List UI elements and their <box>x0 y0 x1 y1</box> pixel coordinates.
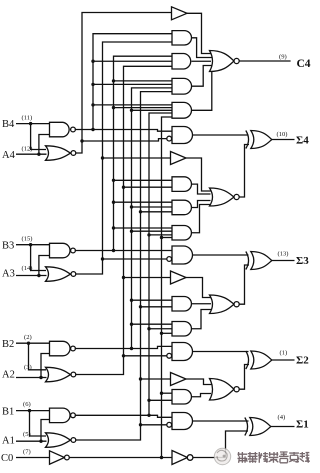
wire C1 to XOR2 <box>239 365 249 390</box>
wire halfsum2 to XOR2 <box>193 351 249 353</box>
wire buffer3 to NORc3 <box>186 158 211 191</box>
svg-text:(1): (1) <box>280 350 288 357</box>
svg-text:(13): (13) <box>278 250 289 257</box>
svg-text:A1: A1 <box>2 436 15 447</box>
nor gate 3-input producing C2 <box>210 295 235 314</box>
svg-text:Σ3: Σ3 <box>296 255 309 267</box>
svg-text:(2): (2) <box>24 334 32 341</box>
wire B4 input <box>16 123 50 125</box>
wire A1 input <box>16 440 47 442</box>
wire and2 to NOR5 <box>192 38 213 58</box>
svg-text:B4: B4 <box>2 119 15 130</box>
wire and3 to NOR5 <box>192 60 212 62</box>
nand gate bit2 (A2 B2) <box>50 341 71 356</box>
svg-text:(11): (11) <box>22 115 33 122</box>
wire to NORc3 <box>192 184 211 194</box>
wire to NORc1 <box>192 394 212 397</box>
buffer gate (pN3) section4 <box>171 152 187 165</box>
wire C4 output <box>239 60 290 62</box>
wire net gN2 (NAND2 output) bus <box>75 346 172 348</box>
wire C0 to XOR1 <box>193 431 248 458</box>
wire to NORc2 <box>192 310 212 329</box>
wire sum3 output <box>272 260 295 262</box>
nor gate 4-input producing C3 <box>210 188 235 206</box>
wire net pN3 (NOR3 output) bus <box>75 42 172 274</box>
and gate 5-input (C4 term) <box>172 102 191 118</box>
wire halfsum4 to XOR4 <box>193 134 249 136</box>
svg-text:(6): (6) <box>23 401 31 408</box>
wire A3 input <box>16 275 47 277</box>
nand gate bit3 (A3 B3) <box>50 243 71 257</box>
wire buffer1 to NORc1 <box>186 379 212 385</box>
wire net gN4 (NAND4 output) bus <box>75 130 172 132</box>
wire and4 to NOR5 <box>192 66 213 87</box>
svg-text:A3: A3 <box>2 269 15 280</box>
xor gate sum1 <box>245 418 248 436</box>
wire C2 to XOR3 <box>239 265 249 304</box>
and gate 3-input (C3 term) <box>172 200 191 215</box>
nor gate 5-input producing C4 <box>210 51 235 72</box>
svg-text:(4): (4) <box>278 414 286 421</box>
wire net pN4 (NOR4 output) bus <box>75 13 171 154</box>
and gate halfsum4 (bubble input pN4) <box>172 127 193 144</box>
and gate 2-input (C2 term) <box>172 297 191 312</box>
svg-text:A4: A4 <box>2 150 16 161</box>
wire sum2 output <box>272 359 295 361</box>
wire A2 input <box>16 377 47 379</box>
buffer gate (pN4) top <box>172 7 188 20</box>
wire A4 input <box>16 153 47 155</box>
watermark text <box>238 452 310 463</box>
inverter C0 <box>50 451 65 464</box>
and gate 4-input (C3 term) <box>172 226 191 241</box>
nor gate bit4 (A4 B4) <box>46 146 71 161</box>
svg-text:B2: B2 <box>2 339 14 350</box>
wire sum1 output <box>271 426 295 428</box>
wire buffer2 to NORc2 <box>186 278 212 298</box>
svg-text:B1: B1 <box>2 406 14 417</box>
wire net c0b (inverted C0) bus <box>69 457 172 459</box>
nor gate 2-input producing C1 <box>210 379 235 401</box>
wire B1 input <box>16 410 50 412</box>
wire sum4 output <box>272 139 295 141</box>
and gate halfsum1 (bubble input pN1) <box>172 413 193 430</box>
svg-text:(7): (7) <box>23 449 31 456</box>
and gate 2-input (C1 term) <box>172 390 191 405</box>
wire net gN3 (NAND3 output) bus <box>75 250 172 252</box>
wire halfsum3 to XOR3 <box>193 254 249 256</box>
svg-text:Σ4: Σ4 <box>296 134 309 146</box>
svg-text:C0: C0 <box>1 453 13 464</box>
wire B2 input <box>16 342 50 344</box>
xor gate sum3 <box>246 252 249 270</box>
svg-text:(10): (10) <box>277 131 288 138</box>
wire net gN1 (NAND1 output) bus <box>75 415 172 417</box>
wire and5 to NOR5 <box>192 70 212 111</box>
wire to NORc3 <box>192 201 211 208</box>
and gate halfsum2 (bubble input pN2) <box>172 343 193 361</box>
and gate 3-input (C2 term) <box>172 322 191 337</box>
svg-text:A2: A2 <box>2 369 15 380</box>
wire to NORc3 <box>192 205 211 233</box>
nand gate bit1 (A1 B1) <box>50 408 71 423</box>
nor gate bit1 (A1 B1) <box>46 433 71 448</box>
wire C0 input <box>16 457 50 459</box>
wire B3 input <box>16 244 50 246</box>
nor gate bit3 (A3 B3) <box>46 267 71 282</box>
buffer gate (pN1) section2 <box>171 373 187 386</box>
and gate 2-input (C3 term) <box>172 177 191 192</box>
svg-text:(15): (15) <box>22 236 33 243</box>
wire buffer to NOR5 <box>187 13 212 53</box>
watermark icon <box>214 448 230 464</box>
wire halfsum1 to XOR1 <box>193 420 249 422</box>
wire C3 to XOR4 <box>239 145 249 198</box>
svg-text:(9): (9) <box>279 53 287 60</box>
and gate 3-input (C4 term) <box>172 54 191 70</box>
svg-text:B3: B3 <box>2 240 14 251</box>
xor gate sum2 <box>246 351 249 369</box>
xor gate sum4 <box>246 131 249 149</box>
svg-text:Σ1: Σ1 <box>296 419 309 431</box>
wire net pN1 (NOR1 output) bus <box>75 92 172 440</box>
wire net pN2 (NOR2 output) bus <box>75 66 172 374</box>
svg-text:Σ2: Σ2 <box>296 355 309 367</box>
and gate 2-input (C4 term) <box>172 31 192 45</box>
inverter C0 second (restores C0) <box>172 451 188 465</box>
and gate 4-input (C4 term) <box>172 78 192 94</box>
buffer gate (pN2) section3 <box>171 271 187 284</box>
svg-text:C4: C4 <box>297 58 311 70</box>
and gate halfsum3 (bubble input pN3) <box>172 246 193 264</box>
wire to NORc2 <box>192 303 212 305</box>
nor gate bit2 (A2 B2) <box>46 367 71 382</box>
nand gate bit4 (A4 B4) <box>50 122 70 137</box>
